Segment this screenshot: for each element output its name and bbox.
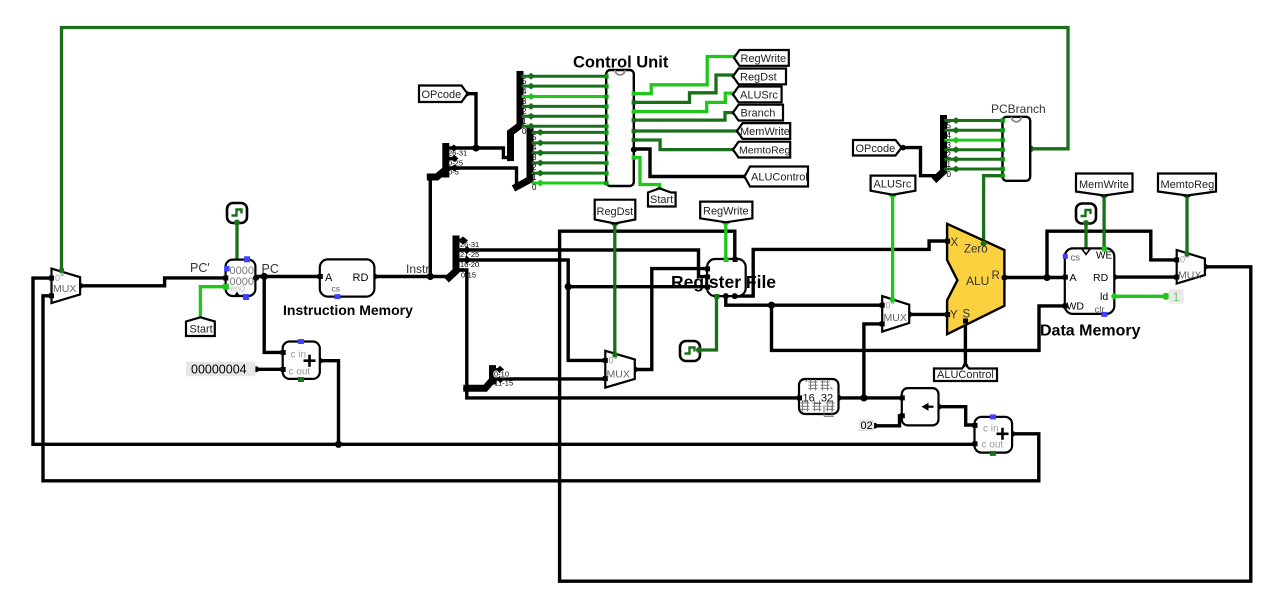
wire RD1 to ALU X xyxy=(735,241,947,296)
bit number labels splitter2 xyxy=(532,133,537,192)
mux RegDst xyxy=(603,351,635,388)
tunnel MemtoReg (control out) xyxy=(733,142,791,158)
green bit lines: control splitter2 to Control Unit xyxy=(532,132,607,183)
ALU xyxy=(945,224,1007,334)
tunnel ALUControl (ALU side) xyxy=(934,364,997,381)
svg-text:0: 0 xyxy=(947,170,952,179)
wire control out RegDst xyxy=(634,75,735,102)
svg-text:ALUControl: ALUControl xyxy=(937,369,994,381)
tunnel ALUSrc (mux side) xyxy=(871,176,916,195)
svg-text:Instr: Instr xyxy=(406,262,429,276)
pins PCBranch left xyxy=(1001,118,1005,178)
green bit lines: PCBranch splitter to PCBranch xyxy=(944,121,1002,170)
splitter small stub 0-10 xyxy=(493,368,501,371)
wire Start tunnel to PC enable xyxy=(200,287,225,318)
svg-text:Start: Start xyxy=(190,324,213,336)
Data Memory xyxy=(1063,246,1118,317)
SPLITTERS xyxy=(430,75,943,389)
wire opcode 26-31 to control splitter1 xyxy=(447,148,510,158)
svg-text:3: 3 xyxy=(947,141,952,150)
wire control out Branch xyxy=(634,113,735,121)
clock CLK3 (data memory) xyxy=(1076,204,1096,227)
wire ALUSrc tunnel to ALUSrc mux select xyxy=(891,195,894,301)
wire control out ALUControl xyxy=(634,149,745,177)
diamonds on splitter1 lines xyxy=(527,73,535,130)
wire ALU S down to ALUControl tunnel xyxy=(964,320,967,365)
tunnel RegWrite (control out) xyxy=(734,50,789,66)
svg-text:WD: WD xyxy=(1067,301,1085,313)
svg-text:c out: c out xyxy=(982,440,1004,451)
tunnel Branch (control out) xyxy=(733,105,783,121)
wire RegWrite tunnel down to register file WE xyxy=(724,222,727,259)
wire RegDst tunnel down to RegDst mux select xyxy=(613,223,616,355)
wire ALU Zero up to PCBranch input xyxy=(984,176,1003,244)
pins Control Unit right xyxy=(631,91,637,159)
wire const 00000004 to adder1 in2 xyxy=(256,368,283,371)
tunnel Start (PC enable) xyxy=(186,317,215,336)
tunnel MemtoReg (mux side) xyxy=(1158,174,1216,196)
shifter shift-left-2 xyxy=(900,388,939,425)
Register File xyxy=(705,257,746,299)
label sign extender text (CJK drawn as strokes) 符号 / 16_32 / 扩展器 xyxy=(801,379,835,416)
splitter control unit opcode bits xyxy=(511,75,521,158)
svg-text:5: 5 xyxy=(947,121,952,130)
tunnel ALUSrc (control out) xyxy=(733,87,782,103)
svg-text:Branch: Branch xyxy=(741,108,776,120)
tunnel MemWrite (DM side) xyxy=(1076,174,1133,196)
tunnel RegDst (control out) xyxy=(733,69,786,85)
svg-text:4: 4 xyxy=(947,131,952,140)
svg-text:RD: RD xyxy=(1093,272,1109,284)
tunnel RegWrite (regfile side) xyxy=(700,202,752,223)
wire field 21-25 to register file A1 xyxy=(457,250,708,277)
wire field 11-15 to RegDst mux in1 xyxy=(493,377,606,380)
svg-text:RegWrite: RegWrite xyxy=(741,53,787,65)
adder PC+4 xyxy=(281,339,320,382)
wire PCBranch output loop to PC mux select (net PCSrc) xyxy=(62,28,1069,271)
wire MemtoReg tunnel to right mux select xyxy=(1185,195,1188,254)
svg-text:Register File: Register File xyxy=(671,272,776,292)
splitter control unit funct bits xyxy=(517,130,531,187)
constant 00000004 xyxy=(186,362,255,377)
svg-text:en0: en0 xyxy=(230,284,245,294)
constant 02 xyxy=(859,420,874,433)
svg-text:OPcode: OPcode xyxy=(856,143,896,155)
svg-text:MUX: MUX xyxy=(1178,270,1201,282)
svg-text:26-31: 26-31 xyxy=(448,149,467,158)
wire Data Memory RD to right mux in1 xyxy=(1114,275,1176,278)
svg-text:c in: c in xyxy=(291,350,307,361)
svg-text:1: 1 xyxy=(522,117,527,126)
svg-text:ALUControl: ALUControl xyxy=(751,172,808,184)
wire RD2 to ALUSrc mux in0 and Data Memory WD xyxy=(726,296,1065,350)
svg-text:0: 0 xyxy=(55,273,60,283)
svg-text:2: 2 xyxy=(947,151,952,160)
tunnel OPcode (control) xyxy=(419,86,468,103)
wire funct 0-5 to control splitter2 xyxy=(447,168,516,187)
svg-text:5: 5 xyxy=(522,77,527,86)
splitter PCBranch opcode bits xyxy=(937,119,944,179)
svg-text:A: A xyxy=(1070,272,1077,284)
svg-text:ALUSrc: ALUSrc xyxy=(874,179,912,191)
wire control out MemtoReg xyxy=(634,140,734,150)
svg-text:WE: WE xyxy=(1096,251,1112,262)
wire PC out to Instruction Memory A, with branch down to adder1 xyxy=(255,277,319,353)
wire Instr: IM RD to main splitter and up to opcode splitter xyxy=(374,182,449,277)
green bit lines: control splitter1 to Control Unit xyxy=(522,76,607,126)
register PC xyxy=(223,256,259,300)
svg-text:ALUSrc: ALUSrc xyxy=(740,89,778,101)
svg-text:0: 0 xyxy=(886,301,891,311)
junction dot PCBranch out xyxy=(1027,145,1034,152)
field labels small splitter xyxy=(494,370,513,388)
adder branch target xyxy=(973,414,1013,456)
wire RegDst mux out to register file A3 xyxy=(635,269,707,370)
pins Control Unit left xyxy=(604,74,608,185)
wire clock2 to register file clk xyxy=(698,296,717,350)
field labels opcode splitter xyxy=(448,149,467,177)
svg-text:OPcode: OPcode xyxy=(422,89,462,101)
svg-text:RegDst: RegDst xyxy=(740,71,777,83)
svg-text:4: 4 xyxy=(532,143,537,152)
svg-text:Control Unit: Control Unit xyxy=(573,54,669,72)
svg-text:Instruction Memory: Instruction Memory xyxy=(283,302,413,318)
svg-text:2: 2 xyxy=(532,163,537,172)
svg-text:16_32: 16_32 xyxy=(803,393,834,405)
wire field 16-20 to register file A2 and RegDst mux in0 xyxy=(457,260,708,360)
splitter small (0-10/11-15) xyxy=(467,369,493,389)
svg-text:R: R xyxy=(992,270,1000,282)
wire sign extender out junction up to ALUSrc mux in1 xyxy=(864,324,882,398)
wire write-back net: right mux out, right rail, bottom rail y=581, up x=559.6 to regfile WD xyxy=(560,231,1251,581)
wire clock3 to Data Memory clk xyxy=(1084,222,1087,248)
IC Control Unit xyxy=(606,70,634,186)
tunnel OPcode (PCBranch side) xyxy=(853,140,902,156)
svg-text:5: 5 xyxy=(532,133,537,142)
wire ALU R to Data Memory A and right mux in0 xyxy=(1004,231,1176,277)
svg-text:MUX: MUX xyxy=(53,283,76,295)
constant 1 xyxy=(1169,289,1184,304)
clock CLK1 above PC xyxy=(227,203,247,226)
wire control out Start xyxy=(634,158,660,189)
svg-text:RegDst: RegDst xyxy=(597,206,634,218)
svg-text:3: 3 xyxy=(532,153,537,162)
sign extender 16->32 xyxy=(797,379,839,414)
wire OPcode tunnel2 to PCBranch splitter xyxy=(902,148,937,176)
wire-end markers at control tunnel tips xyxy=(731,54,739,61)
svg-text:c out: c out xyxy=(289,367,311,378)
svg-text:c in: c in xyxy=(983,424,999,435)
svg-text:cs: cs xyxy=(1071,253,1081,264)
svg-text:Data Memory: Data Memory xyxy=(1040,323,1141,340)
mux MemtoReg (right) xyxy=(1174,250,1205,284)
bit number labels splitter1 xyxy=(522,77,527,136)
svg-text:00000004: 00000004 xyxy=(191,363,247,377)
svg-text:16-20: 16-20 xyxy=(460,260,479,269)
svg-text:MUX: MUX xyxy=(884,312,907,324)
svg-text:ld: ld xyxy=(1100,291,1108,303)
svg-text:MUX: MUX xyxy=(607,369,630,381)
IC PCBranch xyxy=(1003,117,1031,181)
wire shifter out to adder2 in1 xyxy=(939,407,975,425)
tunnel RegDst (regfile side) xyxy=(595,200,636,224)
wire MemWrite tunnel to Data Memory WE xyxy=(1102,195,1105,248)
diamonds on PCBranch splitter lines xyxy=(952,117,960,172)
Instruction Memory xyxy=(318,259,375,299)
field labels Instr splitter xyxy=(460,240,479,280)
wire ALUSrc mux out to ALU Y xyxy=(909,313,947,316)
svg-text:ALU: ALU xyxy=(966,274,989,288)
svg-text:X: X xyxy=(951,237,959,249)
wire branch target net: adder2 out, bottom rail y=480.8, left mux in1 xyxy=(43,296,1039,481)
wire OPcode tunnel1 drop to 26-31 line xyxy=(468,94,477,148)
svg-text:RD: RD xyxy=(353,272,369,284)
tunnel MemWrite (control out) xyxy=(737,123,790,139)
mux PC-select (left) xyxy=(49,268,80,303)
svg-text:3: 3 xyxy=(522,97,527,106)
diamonds on splitter2 lines xyxy=(536,129,544,186)
clock CLK2 (regfile) xyxy=(680,341,702,361)
svg-text:PC: PC xyxy=(262,262,279,276)
svg-text:cs: cs xyxy=(332,284,341,294)
wire left mux output to PC register D xyxy=(80,278,226,286)
svg-text:MemWrite: MemWrite xyxy=(740,126,790,138)
svg-text:A: A xyxy=(325,272,333,284)
svg-text:1: 1 xyxy=(532,173,537,182)
wire clock1 to PC clk xyxy=(235,223,238,260)
wire field 0-15 down to sign extender and small splitter xyxy=(457,270,902,398)
svg-text:02: 02 xyxy=(861,420,873,432)
svg-text:0-15: 0-15 xyxy=(461,271,476,280)
wire control out ALUSrc xyxy=(634,93,735,111)
svg-text:MemtoReg: MemtoReg xyxy=(739,145,791,157)
diamonds at tunnel tips and clock pins xyxy=(196,186,1191,322)
dot const1 wire end xyxy=(1162,293,1169,300)
bit number labels PCBranch splitter xyxy=(947,121,952,179)
svg-text:Start: Start xyxy=(650,194,673,206)
splitter Instr output stubs xyxy=(456,241,464,271)
svg-text:MemtoReg: MemtoReg xyxy=(1161,179,1215,191)
svg-text:0: 0 xyxy=(532,183,537,192)
splitter Instr fields (26-31/21-25/16-20/0-15) xyxy=(449,239,456,278)
svg-text:0: 0 xyxy=(1180,255,1185,265)
svg-text:0: 0 xyxy=(522,127,527,136)
svg-text:1: 1 xyxy=(1173,290,1180,304)
svg-text:21-25: 21-25 xyxy=(460,250,479,259)
splitter opcode stub 0-25 xyxy=(446,157,455,160)
svg-text:PC': PC' xyxy=(190,261,210,275)
svg-text:0-25: 0-25 xyxy=(448,158,463,167)
wire Data Memory ld to const 1 xyxy=(1114,295,1166,298)
tunnel Start (control out) xyxy=(648,188,676,206)
wire control out RegWrite xyxy=(634,57,735,94)
mux ALUSrc xyxy=(880,296,910,332)
svg-text:11-15: 11-15 xyxy=(495,379,514,388)
svg-text:26-31: 26-31 xyxy=(460,240,479,249)
tunnel ALUControl (control out) xyxy=(745,167,809,187)
svg-text:PCBranch: PCBranch xyxy=(991,102,1046,116)
svg-text:4: 4 xyxy=(522,87,527,96)
svg-text:RegWrite: RegWrite xyxy=(703,206,749,218)
svg-text:MemWrite: MemWrite xyxy=(1079,179,1129,191)
svg-text:0-10: 0-10 xyxy=(494,370,509,379)
svg-text:2: 2 xyxy=(522,107,527,116)
svg-text:1: 1 xyxy=(947,160,952,169)
wire control out MemWrite xyxy=(634,129,738,132)
wire const 02 to shifter in2 xyxy=(875,416,902,426)
svg-text:0-5: 0-5 xyxy=(448,168,459,177)
svg-text:Y: Y xyxy=(950,310,958,322)
wire PC+4 net: adder1 out, bottom rail y=444, left mux in0 xyxy=(33,278,974,444)
splitter opcode (26-31/0-25/0-5) xyxy=(430,147,446,178)
